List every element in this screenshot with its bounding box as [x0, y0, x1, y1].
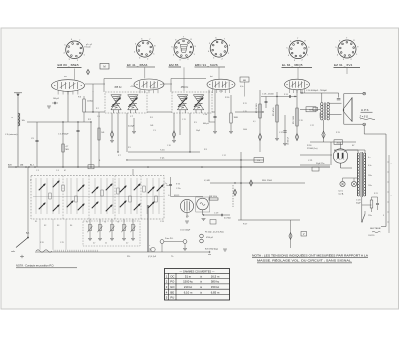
svg-text:1500 kc: 1500 kc: [183, 280, 193, 284]
svg-text:A/B: A/B: [8, 163, 12, 166]
svg-text:0,1: 0,1: [253, 121, 256, 123]
svg-text:S4: S4: [70, 225, 72, 227]
svg-text:R 6: R 6: [150, 117, 153, 119]
svg-text:— GAMMES COUVERTES —: — GAMMES COUVERTES —: [180, 269, 215, 273]
svg-text:W.B. 25kΩ: W.B. 25kΩ: [262, 180, 272, 182]
svg-text:+: +: [391, 195, 392, 197]
svg-text:10k: 10k: [22, 120, 25, 122]
svg-text:10 000 pF: 10 000 pF: [288, 136, 290, 145]
svg-text:OC: OC: [170, 274, 174, 278]
svg-text:C 25: C 25: [60, 242, 64, 244]
svg-text:AL.1: AL.1: [30, 163, 35, 166]
svg-text:C 9: C 9: [153, 130, 156, 132]
svg-text:4,7: 4,7: [93, 243, 95, 245]
svg-text:4,7: 4,7: [126, 243, 128, 245]
svg-text:580 kc: 580 kc: [211, 280, 220, 284]
svg-text:0 v: 0 v: [368, 157, 370, 159]
svg-text:P.U.: P.U.: [127, 256, 131, 258]
svg-text:BE: BE: [170, 290, 174, 294]
svg-text:P°: P°: [30, 180, 32, 182]
svg-text:EM 85: EM 85: [174, 195, 179, 197]
svg-text:0,5 MΩ: 0,5 MΩ: [224, 218, 231, 220]
svg-text:455 Kc: 455 Kc: [181, 86, 189, 89]
svg-text:6,3v: 6,3v: [240, 86, 243, 88]
svg-text:C 11: C 11: [182, 119, 186, 121]
svg-text:C 4: C 4: [56, 170, 59, 172]
svg-text:M: M: [103, 65, 105, 69]
svg-text:EL 84 _ 6BQ5: EL 84 _ 6BQ5: [282, 63, 303, 67]
svg-text:16,5 m: 16,5 m: [211, 274, 220, 278]
svg-text:C 16 6000pF - 7000pF: C 16 6000pF - 7000pF: [306, 90, 328, 92]
svg-text:2700Ω (1w): 2700Ω (1w): [307, 148, 318, 150]
svg-text:C 10: C 10: [167, 145, 171, 147]
svg-text:C 22: C 22: [310, 125, 314, 127]
svg-text:C 12: C 12: [222, 155, 226, 157]
svg-text:6,3v: 6,3v: [368, 165, 371, 167]
svg-text:EM 80 _ 6BE5: EM 80 _ 6BE5: [58, 63, 79, 67]
svg-text:100kΩ: 100kΩ: [87, 101, 93, 103]
svg-text:P4 2kΩ - (3+4×4,7kΩ): P4 2kΩ - (3+4×4,7kΩ): [205, 231, 224, 234]
svg-text:R 8: R 8: [204, 149, 207, 151]
svg-text:S1: S1: [35, 221, 37, 223]
svg-text:100 pF: 100 pF: [53, 98, 60, 100]
svg-text:0,5 MΩ: 0,5 MΩ: [204, 180, 210, 182]
svg-text:T2: T2: [104, 222, 106, 224]
svg-text:R12 1MΩ: R12 1MΩ: [293, 115, 295, 124]
svg-text:(M): (M): [20, 164, 24, 166]
svg-text:150 kc: 150 kc: [211, 285, 220, 289]
svg-text:51 m: 51 m: [185, 274, 192, 278]
svg-text:C 20: C 20: [299, 120, 303, 122]
svg-text:R 5: R 5: [128, 147, 131, 149]
svg-text:E20 1MΩ (log): E20 1MΩ (log): [205, 249, 218, 251]
svg-text:H.P.S: H.P.S: [361, 108, 369, 112]
svg-text:5000: 5000: [243, 129, 247, 131]
svg-text:C 18 - 25000: C 18 - 25000: [262, 94, 274, 96]
svg-text:EZ 91 _ 6V4: EZ 91 _ 6V4: [334, 63, 352, 67]
svg-text:SECTEUR: SECTEUR: [370, 228, 381, 230]
svg-text:110v: 110v: [368, 185, 372, 187]
svg-text:R 20: R 20: [40, 242, 44, 244]
svg-text:1 Ωs: 1 Ωs: [160, 158, 164, 160]
svg-text:C 5 4700pF: C 5 4700pF: [58, 134, 69, 136]
svg-text:0,04μF: 0,04μF: [128, 126, 135, 128]
svg-text:110/220: 110/220: [368, 235, 374, 237]
svg-text:R 7: R 7: [118, 155, 121, 157]
svg-text:NOTA : Contacts en position P: NOTA : Contacts en position P.O.: [16, 264, 54, 268]
svg-text:220v: 220v: [368, 215, 372, 217]
svg-text:C 6: C 6: [97, 116, 100, 118]
svg-text:R 2: R 2: [96, 108, 99, 110]
svg-text:R 19: R 19: [336, 132, 340, 134]
svg-text:4700 pF: 4700 pF: [206, 237, 214, 239]
svg-text:S2: S2: [44, 225, 46, 227]
svg-text:1MΩ: 1MΩ: [234, 117, 239, 119]
svg-text:6,85 m: 6,85 m: [211, 290, 220, 294]
svg-text:EF 41 _ 6BA6: EF 41 _ 6BA6: [127, 63, 148, 67]
svg-text:EM 85: EM 85: [169, 63, 179, 67]
svg-text:W8 120k: W8 120k: [209, 196, 217, 198]
svg-text:EBC 91 _ 6AV6: EBC 91 _ 6AV6: [195, 63, 218, 67]
svg-text:Prise P.U.: Prise P.U.: [165, 237, 174, 240]
svg-text:R 11: R 11: [243, 103, 247, 105]
svg-text:R 21: R 21: [374, 193, 378, 195]
svg-text:1500Ω: 1500Ω: [320, 112, 322, 118]
svg-text:PU: PU: [170, 296, 174, 300]
svg-text:triode: triode: [86, 46, 91, 49]
svg-text:MΩ: MΩ: [66, 149, 70, 151]
svg-text:50μF: 50μF: [356, 202, 362, 204]
svg-text:C 3: C 3: [36, 170, 39, 172]
svg-text:S3: S3: [57, 225, 59, 227]
svg-text:(C) 4,7μF: (C) 4,7μF: [148, 256, 157, 258]
svg-text:C 15: C 15: [243, 111, 247, 113]
svg-text:R 14: R 14: [284, 94, 288, 96]
svg-text:250v: 250v: [368, 175, 372, 177]
svg-text:C 3 (antenne): C 3 (antenne): [5, 133, 18, 136]
svg-text:50μF 25v: 50μF 25v: [316, 163, 324, 165]
svg-text:+250v: +250v: [130, 86, 135, 88]
svg-text:Z = 5 Ω: Z = 5 Ω: [359, 116, 368, 119]
svg-text:6,10 m: 6,10 m: [184, 290, 193, 294]
svg-text:C 13: C 13: [219, 91, 223, 93]
svg-text:S V3: S V3: [176, 184, 180, 186]
svg-text:2k: 2k: [105, 243, 107, 245]
svg-text:T1: T1: [86, 222, 88, 224]
svg-text:Osc: Osc: [166, 185, 169, 187]
svg-text:470: 470: [186, 216, 189, 218]
svg-text:455 Kc: 455 Kc: [114, 86, 122, 89]
svg-text:R15 47kΩ: R15 47kΩ: [273, 107, 275, 116]
svg-text:640 pF: 640 pF: [203, 123, 210, 125]
svg-text:210 kc: 210 kc: [184, 285, 193, 289]
svg-text:R 9: R 9: [194, 122, 197, 124]
svg-text:0,2 A: 0,2 A: [339, 192, 344, 195]
svg-text:C 25n: C 25n: [176, 188, 181, 190]
svg-text:C'est 500pF: C'est 500pF: [180, 229, 191, 232]
svg-text:C 24: C 24: [160, 221, 164, 223]
svg-text:+: +: [391, 163, 392, 165]
svg-text:volts: volts: [11, 250, 15, 253]
svg-text:BR: BR: [243, 80, 246, 82]
svg-text:4,5S Kc: 4,5S Kc: [150, 88, 157, 90]
svg-text:T.L.: T.L.: [171, 256, 175, 258]
svg-text:R13 0,1MΩ: R13 0,1MΩ: [256, 103, 258, 113]
svg-text:osc: osc: [64, 76, 67, 78]
svg-text:T3: T3: [117, 222, 119, 224]
